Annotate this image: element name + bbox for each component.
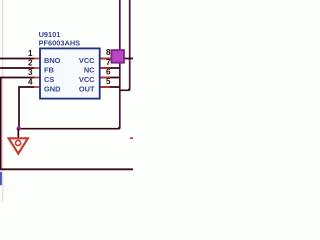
svg-text:PF6003AHS: PF6003AHS [39, 39, 81, 48]
svg-text:8: 8 [106, 48, 111, 57]
wire pin1 [0, 58, 35, 60]
svg-text:CS: CS [44, 75, 54, 84]
pin 3 stub [34, 77, 41, 79]
svg-text:FB: FB [44, 65, 54, 74]
ground symbol circle [16, 140, 21, 145]
wire pin3 branch down left edge [0, 78, 2, 170]
rail between vM and vR y=90.3 [120, 89, 130, 91]
svg-text:VCC: VCC [79, 56, 95, 65]
svg-text:OUT: OUT [79, 84, 95, 93]
wire ground net horizontal [19, 128, 120, 130]
sheet background [0, 0, 133, 202]
pin 4 stub [34, 86, 41, 88]
svg-text:VCC: VCC [79, 75, 95, 84]
red stub right edge (off-sheet pin) [130, 137, 133, 139]
pin 7 stub [100, 67, 110, 69]
ground symbol triangle [9, 138, 28, 153]
blue mark bottom left [0, 172, 2, 185]
pin 8 stub [100, 58, 111, 60]
wire bottom long net [0, 168, 133, 170]
selection square (magenta port) on pin8 net [111, 50, 124, 63]
svg-text:1: 1 [28, 49, 33, 58]
pin 5 stub [100, 86, 110, 88]
vertical net line right [128, 0, 130, 90]
svg-text:GND: GND [44, 84, 61, 93]
svg-text:4: 4 [28, 77, 33, 86]
wire pin6 [100, 77, 120, 79]
pin 1 stub [34, 58, 41, 60]
junction dot ground net [17, 126, 21, 130]
wire pin4 (GND) with turn down [19, 87, 35, 129]
ground symbol stem [17, 129, 19, 139]
wire pin2 [0, 67, 35, 69]
wire pin3 [0, 77, 35, 79]
svg-text:BNO: BNO [44, 56, 61, 65]
wire pin7 [100, 67, 120, 69]
svg-text:3: 3 [28, 68, 33, 77]
vertical net line middle (to ground corner) [118, 0, 120, 128]
svg-text:NC: NC [84, 65, 95, 74]
sheet border faint line [2, 0, 4, 202]
IC body U9101 [40, 48, 100, 98]
svg-text:7: 7 [106, 58, 111, 67]
wire pin5 [100, 86, 120, 88]
pin 2 stub [34, 67, 41, 69]
pin 6 stub [100, 77, 110, 79]
wire pin8 to right edge [100, 58, 133, 60]
svg-text:5: 5 [106, 77, 111, 86]
svg-text:6: 6 [106, 68, 111, 77]
svg-text:2: 2 [28, 58, 33, 67]
